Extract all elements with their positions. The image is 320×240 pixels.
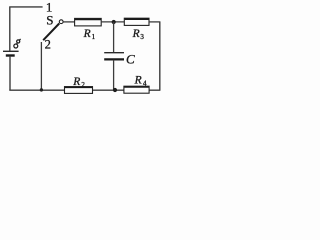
switch S pivot circle xyxy=(59,20,63,24)
junction dot where capacitor branch meets bottom rail xyxy=(113,88,117,92)
svg-text:R: R xyxy=(83,28,91,40)
resistor R3 box xyxy=(124,18,149,25)
wire: junction down to capacitor top plate xyxy=(113,22,115,52)
junction dot at contact-2 wire and bottom rail xyxy=(40,88,43,91)
wire: R3 to right rail xyxy=(149,21,160,23)
resistor R2 box xyxy=(65,87,93,94)
battery EMF label (script E) xyxy=(14,39,21,48)
capacitor C bottom plate xyxy=(104,58,124,60)
switch S blade toward contact 2 xyxy=(43,24,59,41)
wire: left rail below battery down to bottom-left corner xyxy=(9,56,11,90)
svg-text:4: 4 xyxy=(143,79,147,87)
svg-text:S: S xyxy=(46,13,53,28)
resistor R1 box xyxy=(75,18,102,26)
svg-text:2: 2 xyxy=(81,81,85,89)
wire: right rail xyxy=(159,22,161,90)
wire: R1 to R3 xyxy=(101,21,124,23)
wire: top rail from battery to contact 1 xyxy=(9,7,42,51)
wire: bottom rail xyxy=(9,89,160,91)
svg-text:R: R xyxy=(72,76,80,88)
battery E (cell): long positive plate xyxy=(3,50,19,52)
svg-text:2: 2 xyxy=(45,38,51,52)
svg-text:C: C xyxy=(126,52,135,67)
svg-text:R: R xyxy=(134,74,142,86)
wire: capacitor bottom plate down to bottom rail xyxy=(113,60,115,90)
svg-text:R: R xyxy=(132,28,140,40)
wire: switch to R1 xyxy=(63,21,75,23)
resistor R4 box xyxy=(124,86,149,93)
svg-text:1: 1 xyxy=(92,33,96,41)
svg-text:3: 3 xyxy=(140,33,144,41)
junction node dot on top branch (to capacitor) xyxy=(112,20,116,24)
capacitor C top plate xyxy=(104,52,124,54)
battery E (cell): short negative plate xyxy=(6,54,15,56)
wire: from contact 2 down to bottom rail xyxy=(40,42,42,90)
